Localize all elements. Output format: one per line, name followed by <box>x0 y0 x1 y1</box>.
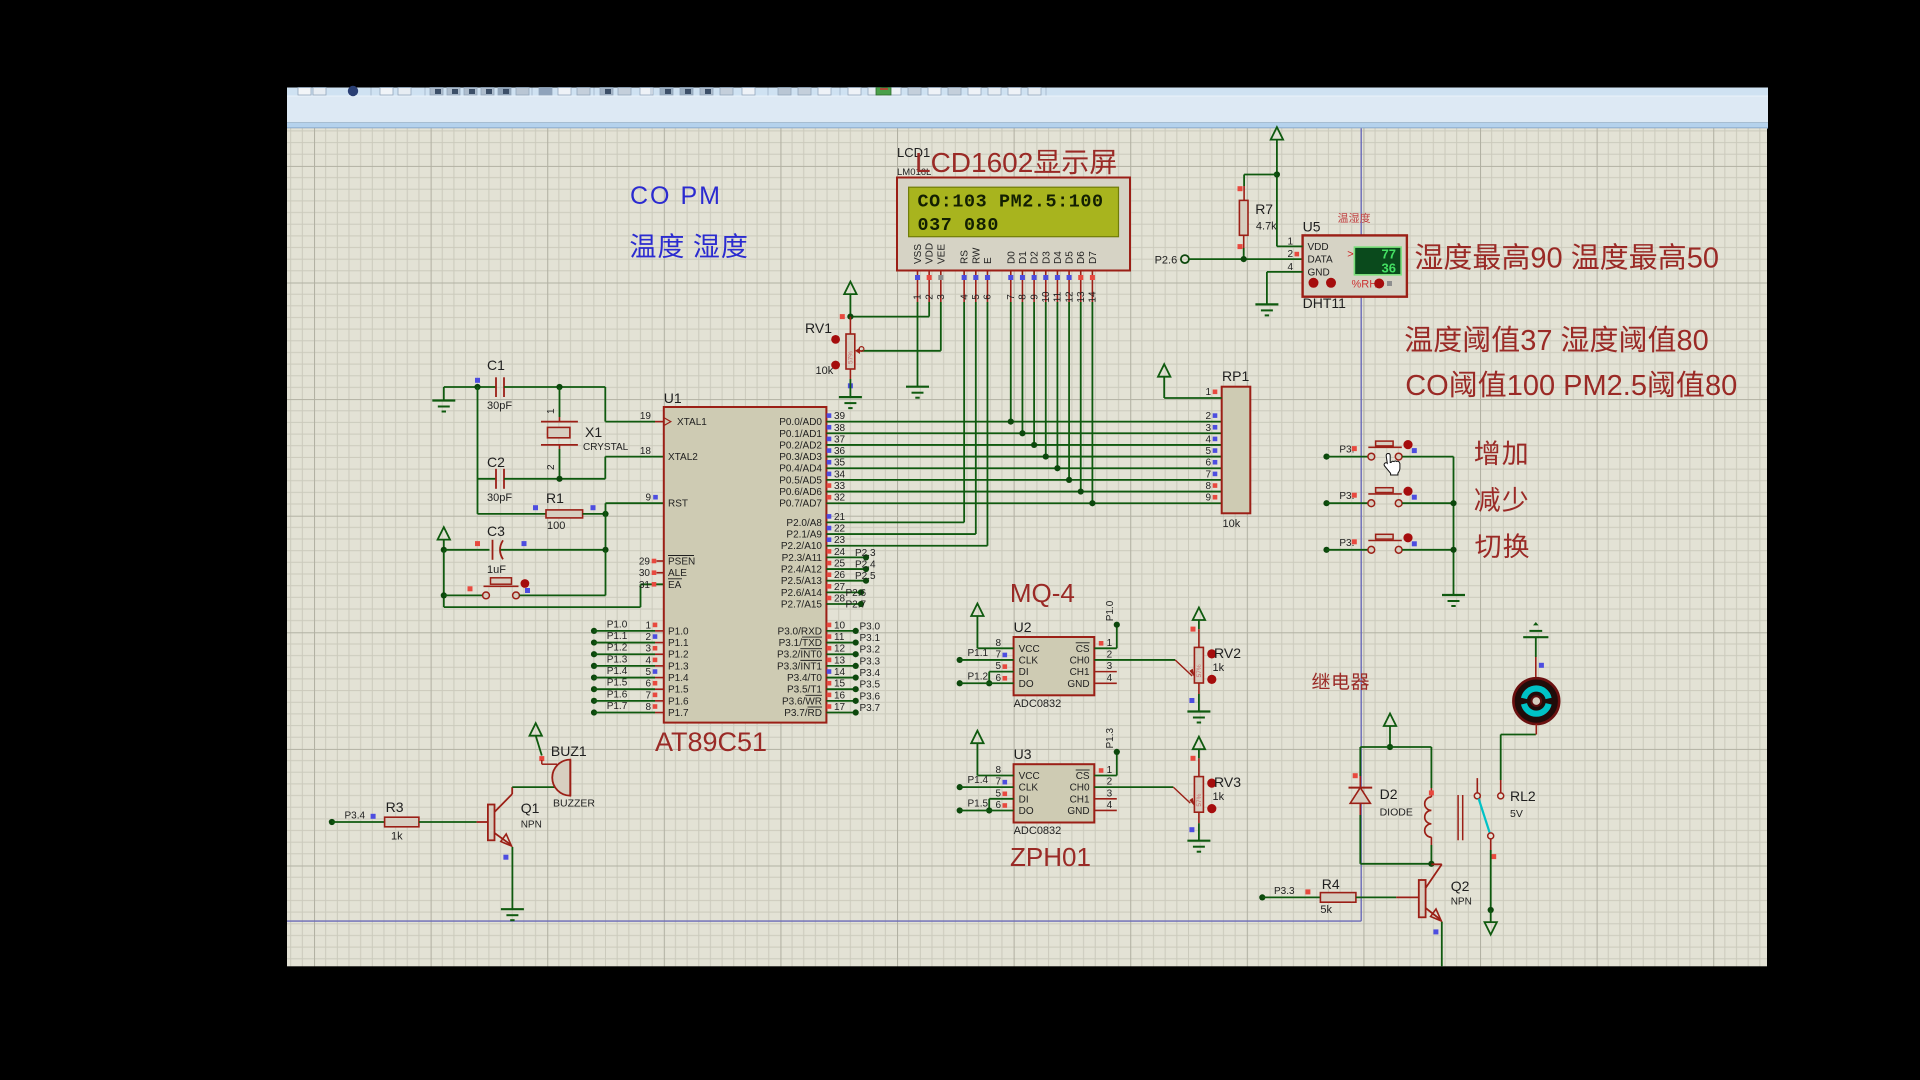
svg-text:1uF: 1uF <box>487 564 506 576</box>
svg-text:2: 2 <box>1107 777 1113 788</box>
svg-text:R1: R1 <box>546 490 564 506</box>
svg-text:24: 24 <box>834 547 846 558</box>
svg-text:7: 7 <box>1006 294 1017 300</box>
svg-text:P3.4/T0: P3.4/T0 <box>787 673 822 684</box>
svg-text:32: 32 <box>834 493 846 504</box>
svg-text:90: 90 <box>1530 243 1562 275</box>
svg-text:36: 36 <box>834 446 846 457</box>
svg-text:31: 31 <box>639 580 651 591</box>
svg-text:P3.1/TXD: P3.1/TXD <box>779 638 822 649</box>
svg-text:11: 11 <box>834 632 845 643</box>
svg-text:13: 13 <box>1076 291 1087 303</box>
svg-text:CH0: CH0 <box>1070 655 1090 666</box>
svg-text:6: 6 <box>996 800 1002 811</box>
svg-text:D4: D4 <box>1053 251 1064 264</box>
svg-text:NPN: NPN <box>521 820 542 831</box>
svg-text:%RH: %RH <box>1352 279 1378 291</box>
svg-text:1: 1 <box>546 408 557 414</box>
svg-text:D5: D5 <box>1065 251 1076 264</box>
svg-text:P2.2/A10: P2.2/A10 <box>781 541 823 552</box>
svg-text:>: > <box>1347 249 1353 261</box>
svg-text:5: 5 <box>996 788 1002 799</box>
svg-text:12: 12 <box>1064 291 1075 303</box>
svg-text:P1.7: P1.7 <box>607 701 628 712</box>
svg-text:35: 35 <box>834 458 846 469</box>
svg-text:RW: RW <box>971 247 982 264</box>
svg-text:29: 29 <box>639 557 651 568</box>
svg-text:CLK: CLK <box>1019 783 1039 794</box>
svg-text:DATA: DATA <box>1308 255 1334 266</box>
svg-text:P2.4: P2.4 <box>855 560 876 571</box>
svg-text:P0.0/AD0: P0.0/AD0 <box>779 417 822 428</box>
svg-text:P1.0: P1.0 <box>1105 600 1116 621</box>
svg-text:ADC0832: ADC0832 <box>1014 825 1062 837</box>
svg-text:P1.5: P1.5 <box>668 685 689 696</box>
svg-text:PSEN: PSEN <box>668 557 695 568</box>
svg-text:CH1: CH1 <box>1070 794 1090 805</box>
svg-text:P3.1: P3.1 <box>860 633 881 644</box>
svg-text:P0.3/AD3: P0.3/AD3 <box>779 452 822 463</box>
svg-text:P3.5: P3.5 <box>860 680 881 691</box>
svg-text:P0.7/AD7: P0.7/AD7 <box>779 499 822 510</box>
svg-text:23: 23 <box>834 535 846 546</box>
svg-text:1: 1 <box>913 294 924 300</box>
svg-text:P1.4: P1.4 <box>607 666 628 677</box>
svg-text:77: 77 <box>1382 247 1396 262</box>
svg-text:RP1: RP1 <box>1222 368 1249 384</box>
svg-text:30pF: 30pF <box>487 492 512 504</box>
svg-text:P3.5/T1: P3.5/T1 <box>787 685 822 696</box>
svg-text:3: 3 <box>645 644 651 655</box>
svg-text:7: 7 <box>645 690 651 701</box>
svg-text:8: 8 <box>996 638 1002 649</box>
svg-text:5V: 5V <box>1510 808 1523 820</box>
svg-text:18: 18 <box>640 446 652 457</box>
svg-text:U2: U2 <box>1014 619 1032 635</box>
svg-text:9: 9 <box>1205 493 1211 504</box>
svg-text:CH0: CH0 <box>1070 783 1090 794</box>
svg-text:11: 11 <box>1053 291 1064 302</box>
svg-text:50: 50 <box>1687 243 1719 275</box>
svg-text:DHT11: DHT11 <box>1303 295 1347 311</box>
svg-text:P0.5/AD5: P0.5/AD5 <box>779 475 822 486</box>
svg-text:P1.5: P1.5 <box>607 678 628 689</box>
svg-text:14: 14 <box>1088 291 1099 303</box>
svg-text:P1.2: P1.2 <box>668 650 689 661</box>
svg-text:P2.6/A14: P2.6/A14 <box>781 588 823 599</box>
svg-text:P1.2: P1.2 <box>607 643 628 654</box>
svg-text:2: 2 <box>546 464 557 470</box>
svg-text:VDD: VDD <box>925 243 936 264</box>
svg-text:15: 15 <box>834 679 846 690</box>
svg-text:U5: U5 <box>1303 219 1321 235</box>
svg-text:VSS: VSS <box>913 244 924 264</box>
svg-text:D2: D2 <box>1030 251 1041 264</box>
svg-text:C2: C2 <box>487 454 505 470</box>
svg-text:7: 7 <box>996 777 1002 788</box>
svg-text:P2.7/A15: P2.7/A15 <box>781 600 823 611</box>
svg-text:LCD1602: LCD1602 <box>915 147 1033 178</box>
svg-text:4: 4 <box>645 655 651 666</box>
svg-text:5k: 5k <box>1320 904 1332 916</box>
svg-text:30pF: 30pF <box>487 400 512 412</box>
svg-text:R3: R3 <box>386 799 404 815</box>
svg-text:X1: X1 <box>585 424 602 440</box>
svg-text:CH1: CH1 <box>1070 667 1090 678</box>
svg-text:RS: RS <box>960 250 971 264</box>
svg-text:10k: 10k <box>1223 518 1241 530</box>
svg-text:GND: GND <box>1067 806 1089 817</box>
svg-text:C1: C1 <box>487 357 505 373</box>
svg-text:P2.5/A13: P2.5/A13 <box>781 576 823 587</box>
svg-text:38: 38 <box>834 423 846 434</box>
svg-text:4: 4 <box>959 294 970 300</box>
svg-text:CO: CO <box>1405 370 1449 402</box>
svg-text:CO PM: CO PM <box>630 182 722 210</box>
svg-text:DO: DO <box>1019 679 1034 690</box>
svg-text:8: 8 <box>645 702 651 713</box>
svg-text:P2.7: P2.7 <box>846 600 867 611</box>
svg-text:2: 2 <box>924 294 935 300</box>
svg-text:21: 21 <box>834 512 846 523</box>
svg-text:57%: 57% <box>1196 664 1203 677</box>
svg-text:P3.7/RD: P3.7/RD <box>784 708 822 719</box>
svg-text:4: 4 <box>1107 673 1113 684</box>
svg-text:5: 5 <box>645 667 651 678</box>
svg-text:6: 6 <box>645 679 651 690</box>
svg-text:VCC: VCC <box>1019 771 1040 782</box>
svg-text:P1.3: P1.3 <box>668 661 689 672</box>
svg-text:VEE: VEE <box>936 244 947 264</box>
svg-text:1: 1 <box>1107 765 1113 776</box>
svg-text:1: 1 <box>1107 638 1113 649</box>
svg-text:6: 6 <box>1205 458 1211 469</box>
svg-text:AT89C51: AT89C51 <box>655 727 767 757</box>
svg-text:C3: C3 <box>487 523 505 539</box>
svg-text:17: 17 <box>834 702 846 713</box>
svg-text:P3.6/WR: P3.6/WR <box>782 696 822 707</box>
svg-text:P3.2: P3.2 <box>860 645 881 656</box>
svg-text:3: 3 <box>936 294 947 300</box>
svg-text:9: 9 <box>1029 294 1040 300</box>
svg-text:P0.4/AD4: P0.4/AD4 <box>779 464 822 475</box>
svg-text:80: 80 <box>1677 325 1709 357</box>
svg-text:25: 25 <box>834 559 846 570</box>
svg-text:EA: EA <box>668 580 682 591</box>
svg-text:ADC0832: ADC0832 <box>1014 698 1062 710</box>
svg-text:R4: R4 <box>1322 876 1340 892</box>
svg-text:6: 6 <box>996 673 1002 684</box>
svg-text:P0.1/AD1: P0.1/AD1 <box>779 429 822 440</box>
svg-text:P3.3: P3.3 <box>860 656 881 667</box>
svg-text:CS: CS <box>1076 644 1090 655</box>
svg-text:P1.5: P1.5 <box>968 798 989 809</box>
svg-text:P2.4/A12: P2.4/A12 <box>781 565 823 576</box>
svg-text:8: 8 <box>1205 481 1211 492</box>
svg-text:3: 3 <box>1107 788 1113 799</box>
svg-text:D3: D3 <box>1041 251 1052 264</box>
svg-text:R7: R7 <box>1255 201 1273 217</box>
svg-text:9: 9 <box>645 493 651 504</box>
svg-text:P0.2/AD2: P0.2/AD2 <box>779 440 822 451</box>
svg-text:P2.6: P2.6 <box>1155 255 1178 267</box>
svg-text:16: 16 <box>834 690 846 701</box>
svg-text:D6: D6 <box>1076 251 1087 264</box>
svg-text:28: 28 <box>834 594 846 605</box>
svg-text:RV3: RV3 <box>1214 774 1241 790</box>
svg-text:22: 22 <box>834 524 846 535</box>
svg-text:P1.1: P1.1 <box>607 631 628 642</box>
svg-text:P1.1: P1.1 <box>968 648 989 659</box>
svg-text:2: 2 <box>1107 649 1113 660</box>
svg-text:CLK: CLK <box>1019 655 1039 666</box>
svg-text:P1.4: P1.4 <box>668 673 689 684</box>
svg-text:10k: 10k <box>816 365 834 377</box>
svg-text:CO:103 PM2.5:100: CO:103 PM2.5:100 <box>918 192 1104 213</box>
svg-text:CS: CS <box>1076 771 1090 782</box>
svg-text:7: 7 <box>1205 469 1211 480</box>
svg-text:P1.0: P1.0 <box>668 626 689 637</box>
svg-text:E: E <box>983 257 994 264</box>
svg-text:P2.3: P2.3 <box>855 548 876 559</box>
svg-text:2: 2 <box>1205 411 1211 422</box>
svg-text:P1.3: P1.3 <box>1105 727 1116 748</box>
svg-text:RV2: RV2 <box>1214 645 1241 661</box>
svg-text:P1.6: P1.6 <box>668 696 689 707</box>
svg-text:VDD: VDD <box>1308 242 1329 253</box>
svg-text:57%: 57% <box>848 351 855 364</box>
svg-text:P3.3/INT1: P3.3/INT1 <box>777 661 822 672</box>
svg-text:DI: DI <box>1019 794 1029 805</box>
svg-text:1k: 1k <box>391 831 403 843</box>
svg-text:57%: 57% <box>1196 793 1203 806</box>
svg-text:P2.0/A8: P2.0/A8 <box>786 518 822 529</box>
svg-text:37: 37 <box>1520 325 1552 357</box>
svg-text:10: 10 <box>834 620 846 631</box>
svg-text:1: 1 <box>645 620 651 631</box>
svg-text:2: 2 <box>1287 249 1293 260</box>
svg-text:XTAL2: XTAL2 <box>668 452 698 463</box>
svg-text:P3.6: P3.6 <box>860 691 881 702</box>
svg-text:5: 5 <box>971 294 982 300</box>
svg-text:P1.2: P1.2 <box>968 671 989 682</box>
svg-text:P0.6/AD6: P0.6/AD6 <box>779 487 822 498</box>
svg-text:U3: U3 <box>1014 746 1032 762</box>
svg-text:D0: D0 <box>1006 251 1017 264</box>
svg-text:8: 8 <box>996 765 1002 776</box>
svg-text:NPN: NPN <box>1451 897 1472 908</box>
svg-text:P2.5: P2.5 <box>855 571 876 582</box>
svg-text:1k: 1k <box>1213 791 1225 803</box>
svg-text:ALE: ALE <box>668 568 687 579</box>
svg-text:P3.7: P3.7 <box>860 703 881 714</box>
svg-text:GND: GND <box>1067 679 1089 690</box>
svg-text:36: 36 <box>1382 261 1396 276</box>
svg-text:U1: U1 <box>664 390 682 406</box>
svg-text:100: 100 <box>547 520 565 532</box>
svg-text:CRYSTAL: CRYSTAL <box>583 442 629 453</box>
svg-text:D2: D2 <box>1380 786 1398 802</box>
svg-text:BUZ1: BUZ1 <box>551 743 587 759</box>
svg-text:P2.1/A9: P2.1/A9 <box>786 530 822 541</box>
svg-text:XTAL1: XTAL1 <box>677 417 707 428</box>
svg-text:5: 5 <box>996 661 1002 672</box>
svg-text:RV1: RV1 <box>805 320 832 336</box>
svg-text:D7: D7 <box>1088 251 1099 264</box>
svg-text:P3.0/RXD: P3.0/RXD <box>778 626 822 637</box>
svg-text:27: 27 <box>834 582 846 593</box>
svg-text:6: 6 <box>983 294 994 300</box>
svg-text:34: 34 <box>834 469 846 480</box>
svg-text:37: 37 <box>834 434 846 445</box>
svg-text:RL2: RL2 <box>1510 788 1536 804</box>
svg-text:4: 4 <box>1107 800 1113 811</box>
svg-text:1: 1 <box>1287 236 1293 247</box>
svg-text:DIODE: DIODE <box>1380 807 1413 819</box>
svg-text:26: 26 <box>834 570 846 581</box>
svg-text:5: 5 <box>1205 446 1211 457</box>
svg-text:P3.0: P3.0 <box>860 621 881 632</box>
svg-text:10: 10 <box>1041 291 1052 303</box>
svg-text:P3.2/INT0: P3.2/INT0 <box>777 650 822 661</box>
svg-text:BUZZER: BUZZER <box>553 798 595 810</box>
svg-text:7: 7 <box>996 649 1002 660</box>
svg-text:80: 80 <box>1705 370 1737 402</box>
svg-text:3: 3 <box>1205 423 1211 434</box>
svg-text:3: 3 <box>1107 661 1113 672</box>
svg-text:12: 12 <box>834 644 846 655</box>
svg-text:14: 14 <box>834 667 846 678</box>
svg-text:4: 4 <box>1205 434 1211 445</box>
svg-text:VCC: VCC <box>1019 644 1040 655</box>
svg-text:4.7k: 4.7k <box>1256 221 1277 233</box>
svg-text:P3.4: P3.4 <box>345 811 366 822</box>
svg-text:1: 1 <box>1205 387 1211 398</box>
svg-text:Q1: Q1 <box>521 800 540 816</box>
svg-text:MQ-4: MQ-4 <box>1010 578 1075 608</box>
svg-text:ZPH01: ZPH01 <box>1010 842 1091 872</box>
svg-text:39: 39 <box>834 411 846 422</box>
svg-text:DI: DI <box>1019 667 1029 678</box>
svg-text:100 PM2.5: 100 PM2.5 <box>1507 370 1647 402</box>
svg-text:037 080: 037 080 <box>918 215 999 236</box>
svg-text:D1: D1 <box>1018 251 1029 264</box>
svg-text:P1.7: P1.7 <box>668 708 689 719</box>
svg-text:30: 30 <box>639 568 651 579</box>
svg-text:P1.4: P1.4 <box>968 775 989 786</box>
svg-text:P1.0: P1.0 <box>607 619 628 630</box>
svg-text:P1.3: P1.3 <box>607 654 628 665</box>
svg-text:P2.3/A11: P2.3/A11 <box>782 553 823 564</box>
svg-text:GND: GND <box>1308 267 1330 278</box>
svg-text:P3.4: P3.4 <box>860 668 881 679</box>
svg-text:P1.1: P1.1 <box>668 638 689 649</box>
svg-text:P1.6: P1.6 <box>607 689 628 700</box>
svg-text:P3.3: P3.3 <box>1274 886 1295 897</box>
svg-text:19: 19 <box>640 411 652 422</box>
svg-text:2: 2 <box>645 632 651 643</box>
svg-text:13: 13 <box>834 655 846 666</box>
svg-text:Q2: Q2 <box>1451 878 1470 894</box>
svg-text:1k: 1k <box>1213 662 1225 674</box>
svg-text:DO: DO <box>1019 806 1034 817</box>
svg-text:8: 8 <box>1018 294 1029 300</box>
svg-text:RST: RST <box>668 499 688 510</box>
svg-text:33: 33 <box>834 481 846 492</box>
svg-text:P2.6: P2.6 <box>846 588 867 599</box>
